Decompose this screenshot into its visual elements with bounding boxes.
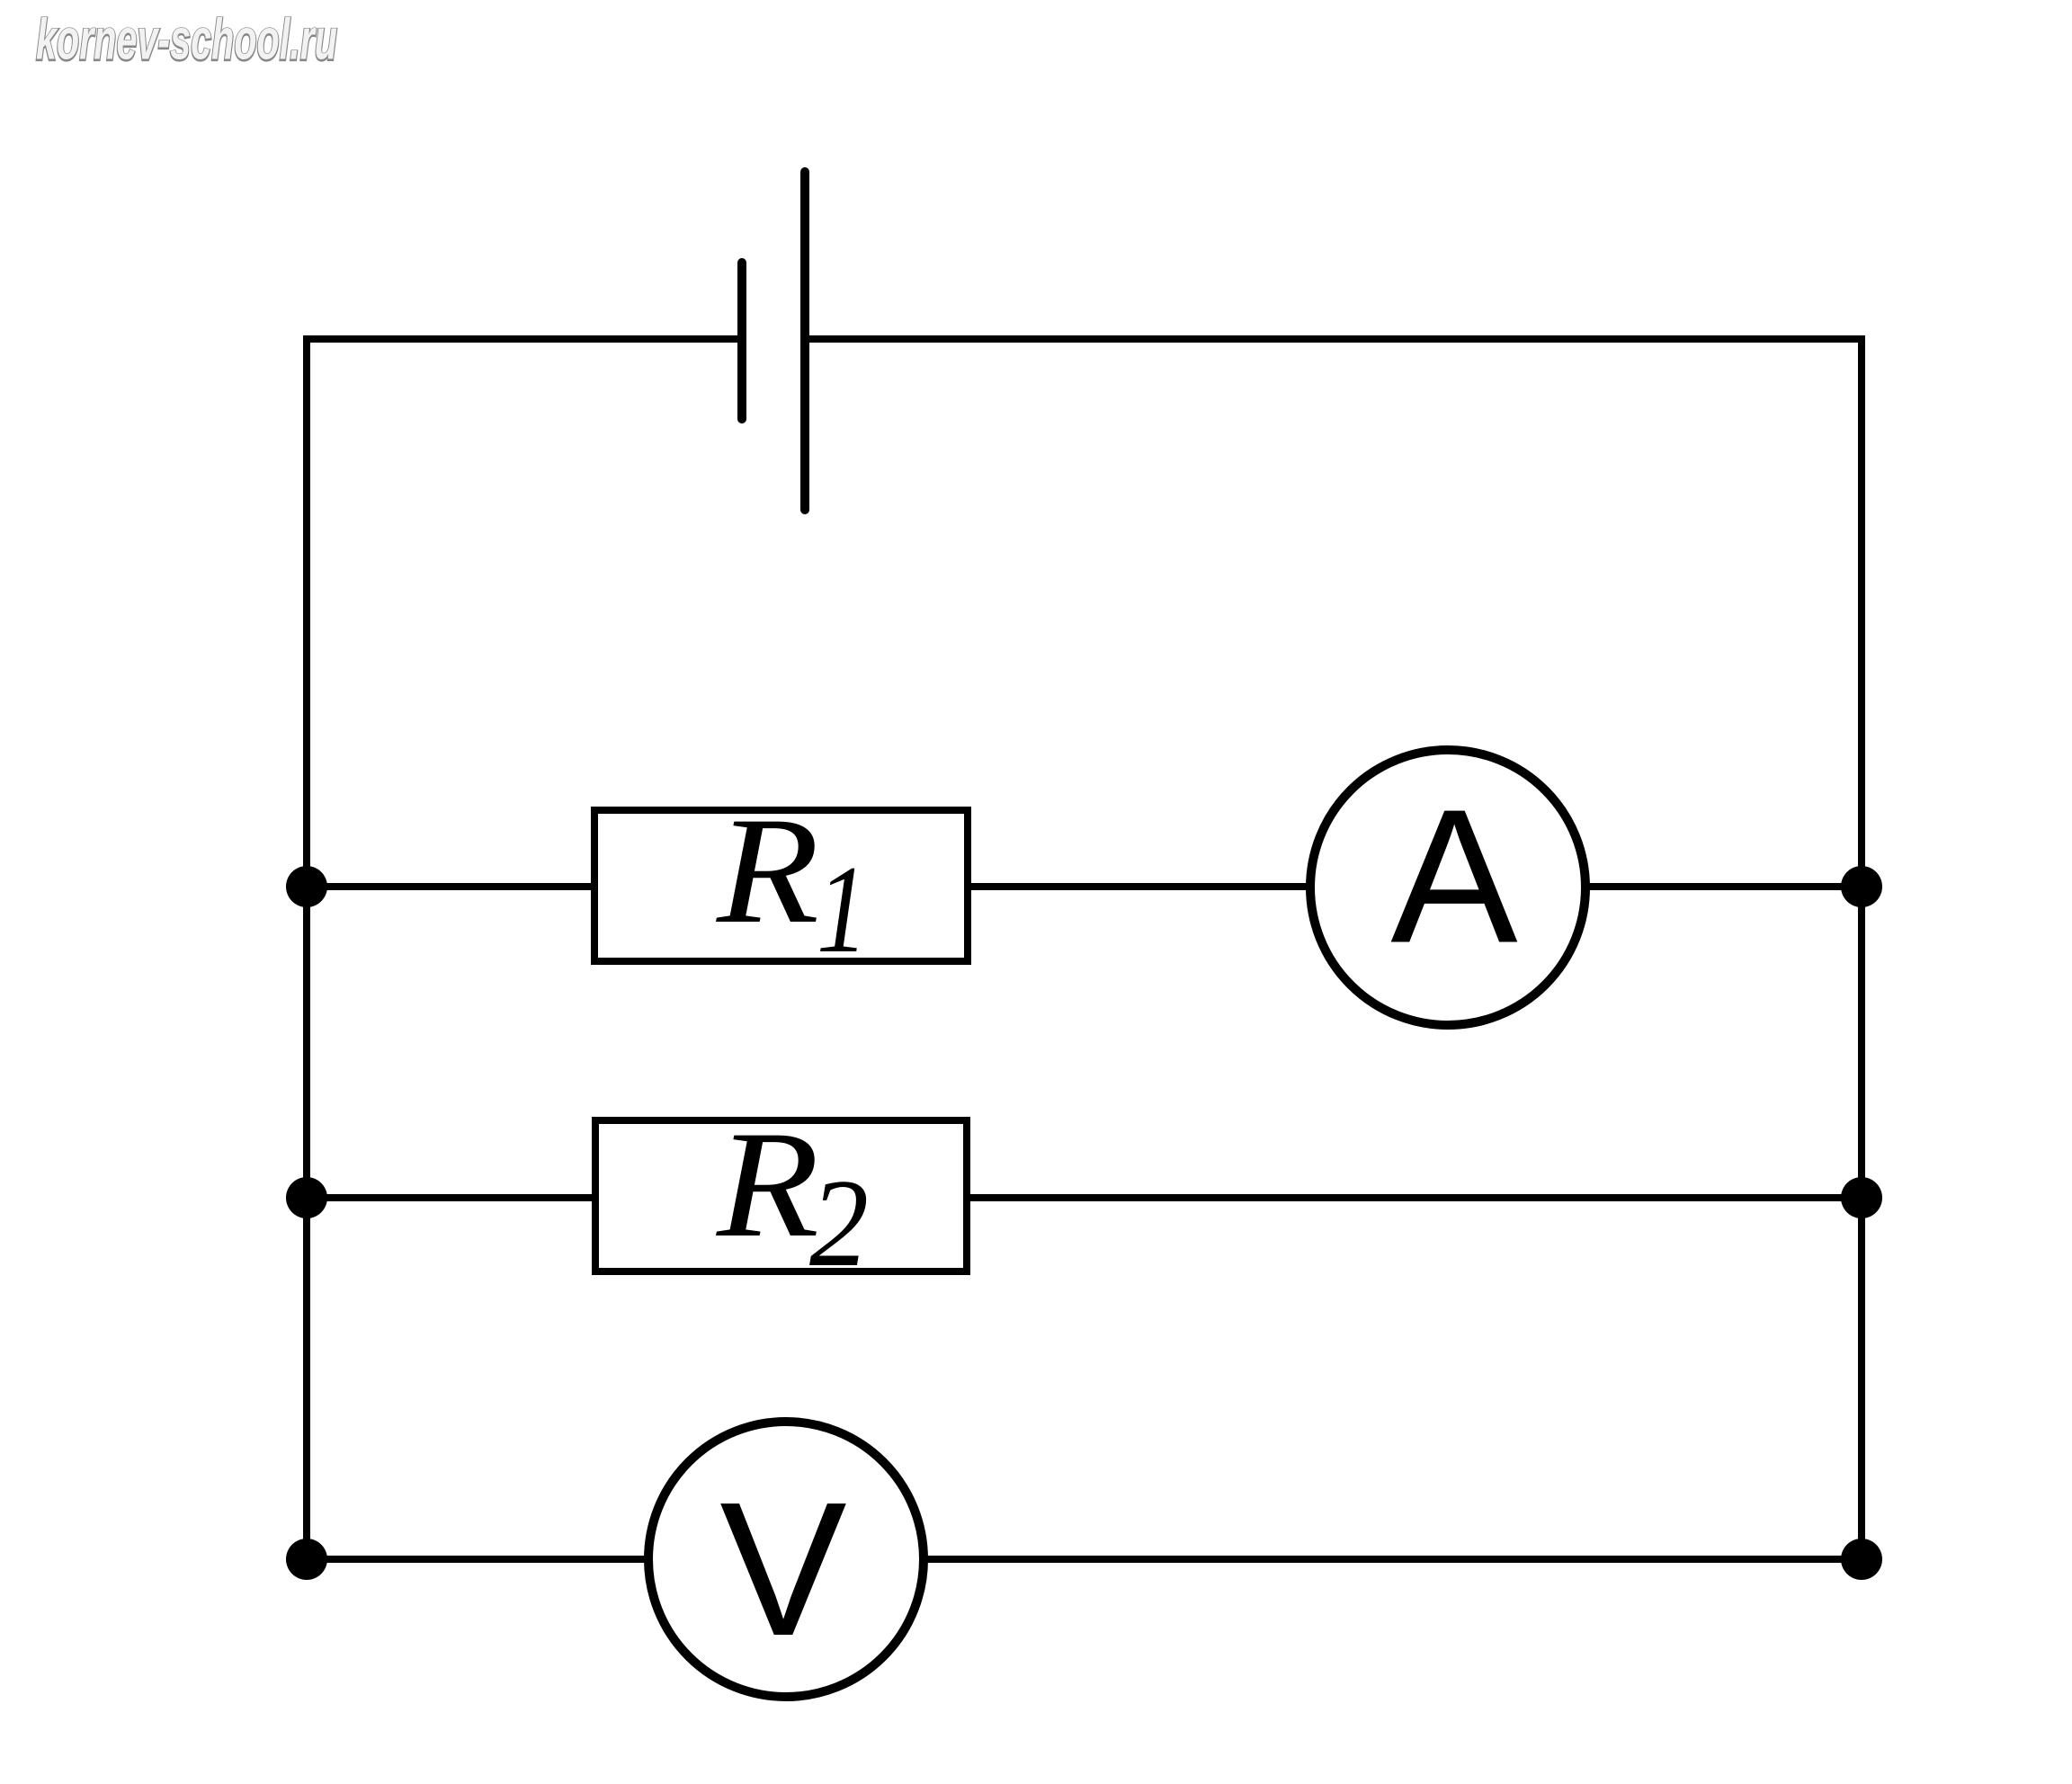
svg-text:V: V (719, 1462, 846, 1675)
svg-text:2: 2 (809, 1154, 869, 1293)
svg-text:R: R (716, 1100, 819, 1269)
svg-text:kornev-school.ru: kornev-school.ru (36, 7, 337, 72)
svg-text:1: 1 (817, 840, 868, 979)
svg-text:R: R (716, 786, 819, 955)
svg-text:A: A (1390, 770, 1517, 983)
